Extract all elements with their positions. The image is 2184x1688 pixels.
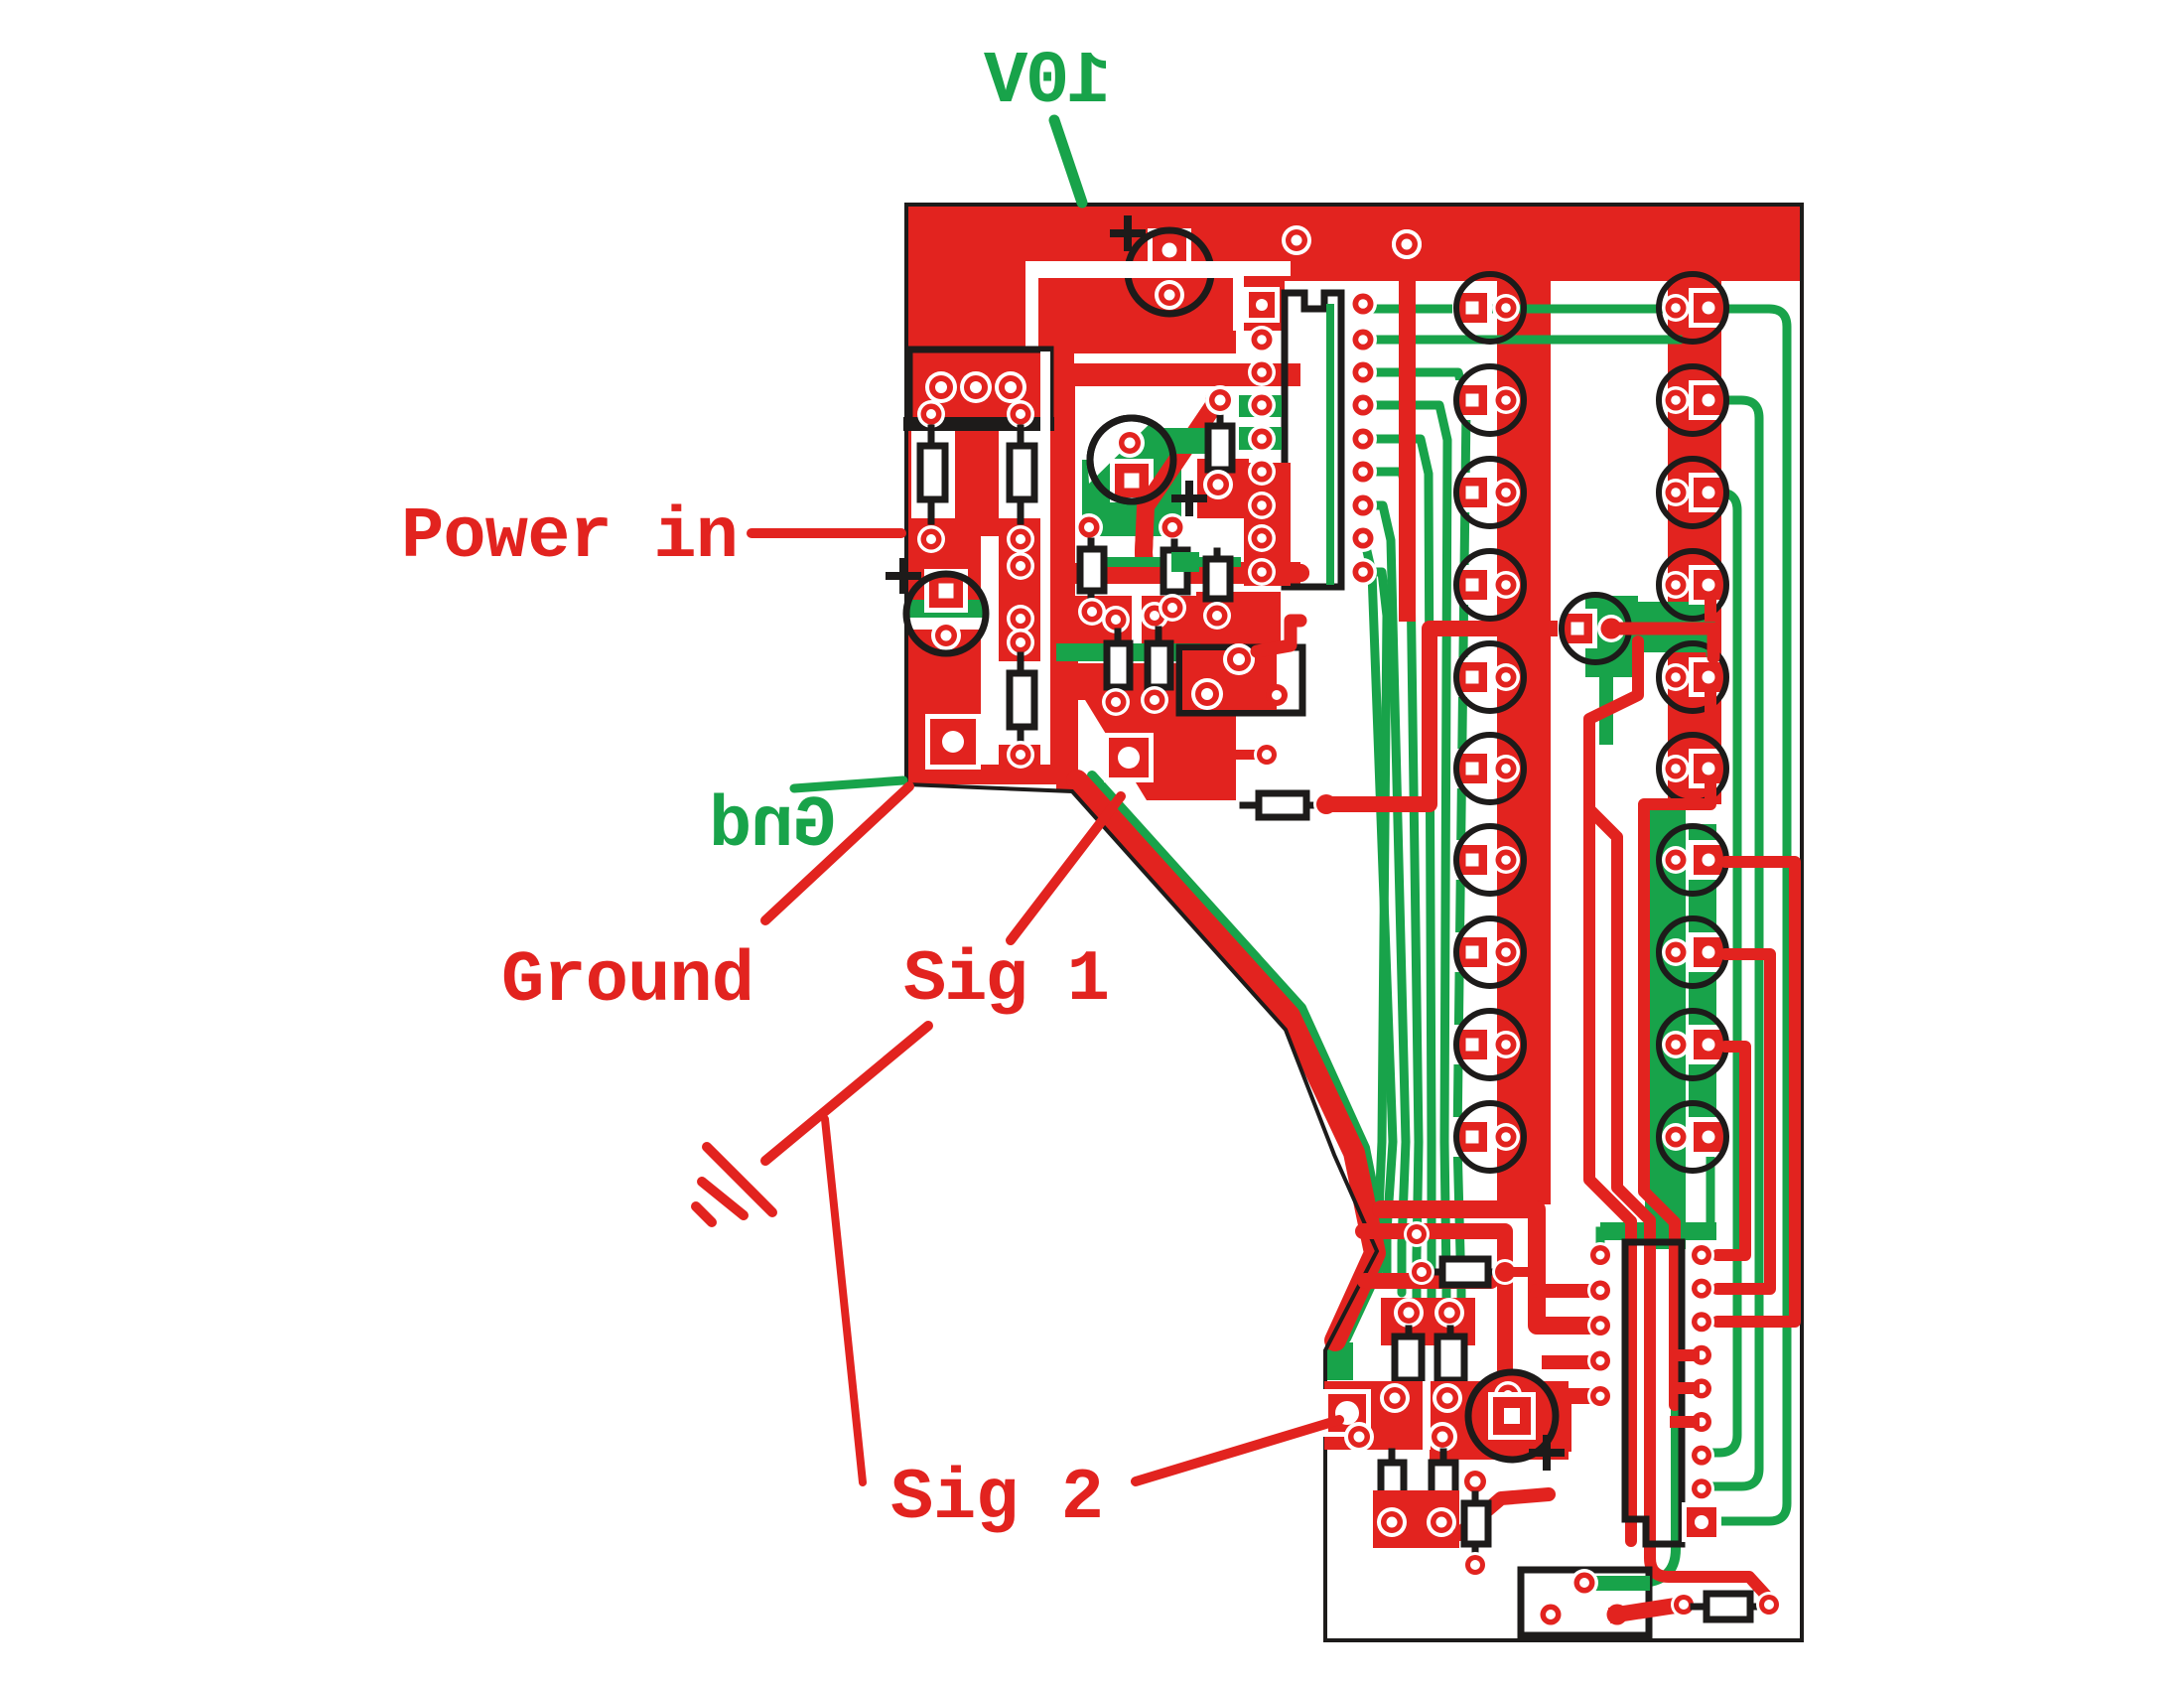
transistor QB4 — [1659, 551, 1728, 619]
capacitor C3 plus mark — [889, 562, 917, 590]
board outline — [906, 205, 1802, 1640]
green wedge at diagonal end — [1325, 1342, 1353, 1380]
slash mark 2 — [702, 1182, 744, 1215]
pads below R5 R6 — [1102, 686, 1168, 716]
green fan bundle (7 traces IC to bottom islands) — [1364, 372, 1466, 1340]
IC left pad sq — [1244, 287, 1280, 323]
resistor R1 pad top — [917, 400, 945, 428]
capacitor C4 plus — [1533, 1439, 1561, 1467]
resistor R15 body — [1080, 541, 1104, 608]
transistor QB2 — [1659, 366, 1728, 434]
capacitor C3 outline — [906, 574, 986, 653]
transistor QA10 — [1452, 1103, 1524, 1171]
slash mark 1 — [707, 1147, 772, 1212]
capacitor C4 square pad — [1488, 1392, 1536, 1440]
sig1 square pad — [1104, 733, 1154, 782]
resistor R16 body — [1163, 542, 1187, 606]
connector J3 right pads — [1682, 1242, 1721, 1542]
transistor QB10 — [1659, 1103, 1728, 1171]
IC right pads column — [1349, 290, 1377, 586]
connector J3 left pads — [1587, 1242, 1613, 1409]
island 1 pads — [1394, 1298, 1464, 1328]
column A red bar — [1497, 281, 1551, 1204]
connector J1 bottom bar — [903, 417, 1054, 431]
red trace maze b — [1589, 809, 1769, 1599]
capacitor C1 ring pad — [1155, 280, 1184, 310]
teardrop pad top of vert trace — [1392, 229, 1422, 259]
column B red bar — [1668, 281, 1721, 804]
red mass sig1 island — [1056, 616, 1236, 800]
pad right isolated — [1460, 1467, 1490, 1496]
red trace staple to Q7 — [1326, 629, 1567, 804]
white corridor under band — [1025, 261, 1291, 352]
pads mid column x1028 — [1007, 552, 1034, 656]
capacitor C2 green fill — [1082, 404, 1181, 536]
transistor QA3 — [1452, 459, 1524, 526]
resistor R8 horizontal — [1422, 1259, 1504, 1285]
red bar maze 2 — [1365, 1221, 1491, 1281]
resistor R2 body — [1010, 428, 1034, 521]
red trace B6 elbow — [1717, 862, 1795, 1322]
red trace maze c — [1644, 789, 1710, 1405]
svg-text:Sig 1: Sig 1 — [903, 939, 1110, 1021]
island 3 pads — [1377, 1507, 1456, 1537]
leader Ground — [765, 786, 909, 920]
connector J2 pad small — [1266, 684, 1288, 706]
green trace to J4 pad — [1588, 1249, 1676, 1583]
column B green band lower — [1645, 800, 1686, 1249]
transistor QB9 — [1659, 1011, 1728, 1078]
transistor QB7 — [1659, 826, 1728, 894]
resistor R1 white field — [911, 431, 955, 518]
label Sig 2 — [890, 1458, 1104, 1539]
green trace top h1 — [1368, 309, 1787, 1521]
green stub B9 down — [1706, 1154, 1715, 1231]
green trace top h2 — [1368, 336, 1678, 345]
red trace C2 to bar — [1144, 402, 1300, 573]
red trace vert left of C2 — [1056, 363, 1075, 675]
leader Sig1 down — [765, 1026, 928, 1161]
red link R8 to maze — [1505, 1267, 1537, 1277]
connector J1 pad 3 — [995, 371, 1026, 403]
leader Gnd — [794, 780, 903, 788]
transistor Q7 mid — [1558, 595, 1629, 662]
slash mark 3 — [696, 1206, 712, 1222]
resistor R1 body — [920, 428, 945, 521]
resistor R10 body — [1437, 1329, 1464, 1390]
svg-text:Sig 2: Sig 2 — [890, 1458, 1104, 1539]
red trace maze a — [1589, 641, 1638, 1541]
red trace bar horiz center — [1056, 363, 1300, 386]
red bar maze 1b — [1363, 1231, 1588, 1396]
label Ground — [501, 940, 754, 1022]
IC green line — [1326, 308, 1334, 581]
red vert trace from band to Q7 — [1392, 229, 1422, 622]
red bar behind resistor row — [1070, 563, 1249, 584]
resistor R4 pad top — [1205, 385, 1235, 415]
capacitor C3 green strip — [908, 600, 986, 618]
green companion trace of board-edge diagonal — [1092, 775, 1386, 1338]
square pad power — [925, 714, 981, 770]
connector J2 pad big — [1223, 643, 1255, 675]
pads row 2 bottom — [1344, 1422, 1457, 1452]
capacitor C1 plus mark — [1114, 219, 1142, 247]
transistor QB5 — [1659, 643, 1728, 711]
transistor QA7 — [1452, 826, 1524, 894]
pillar left of IC — [1238, 205, 1285, 331]
red band lower center — [1064, 663, 1281, 700]
connector J2 pad 2 — [1191, 678, 1223, 710]
transistor QA6 — [1452, 735, 1524, 802]
resistor R7 horizontal — [1243, 793, 1320, 817]
capacitor C4 ring pad — [1494, 1381, 1522, 1409]
green trace B2 elbow — [1707, 400, 1759, 1486]
leader long to Sig2 — [825, 1119, 863, 1482]
capacitor C3 square pad — [924, 569, 968, 613]
leader Power in — [751, 528, 901, 538]
connector J1 pad 1 — [925, 371, 957, 403]
white field around IC — [1285, 281, 1380, 293]
capacitor C2 plus — [1175, 485, 1203, 512]
resistor R2 pad top — [1007, 400, 1034, 428]
red trace C2 to bar overlay — [1144, 389, 1300, 573]
connector J3 outline — [1625, 1242, 1682, 1544]
board outline top fill: top copper band (10V plane) — [906, 205, 1800, 281]
capacitor C2 ring pad — [1115, 428, 1145, 458]
transistor QA4 — [1452, 551, 1524, 619]
red thick diagonal trace (board edge) — [1077, 780, 1375, 1340]
pads above resistor row — [1075, 513, 1186, 541]
red link J4 to pad — [1617, 1592, 1697, 1618]
capacitor C4 outline — [1468, 1372, 1556, 1460]
capacitor C3 white strip — [908, 618, 986, 630]
svg-text:Power in: Power in — [401, 496, 739, 578]
leader 10V — [1054, 120, 1082, 203]
label Sig 1 — [903, 939, 1110, 1021]
green stub B4 — [1706, 600, 1715, 652]
IC left pads column — [1248, 326, 1276, 586]
resistor R3 body — [1010, 655, 1034, 747]
left copper block — [906, 205, 1052, 784]
green bottom connector stub — [1592, 1576, 1650, 1591]
transistor QB8 — [1659, 918, 1728, 986]
resistor R11 body — [1381, 1452, 1404, 1511]
pad below R13 — [1462, 1552, 1488, 1578]
column B green narrow lower — [1689, 824, 1716, 1152]
resistor R2 white field — [999, 431, 1042, 518]
connector J1 pad 2 — [960, 371, 992, 403]
connector J1 outline — [909, 350, 1050, 425]
transistor QA9 — [1452, 1011, 1524, 1078]
pads col right of IC green rects — [1239, 395, 1291, 586]
resistor R3 pad bottom — [1007, 741, 1034, 769]
green band Q7 area — [1585, 596, 1713, 745]
resistor R6 body — [1148, 630, 1170, 695]
green trace B3 elbow — [1707, 492, 1737, 1453]
resistor R5 body — [1107, 632, 1130, 695]
island 3 fill — [1373, 1490, 1459, 1548]
red trace B7 elbow — [1717, 954, 1770, 1289]
resistor R3 white field — [999, 661, 1042, 745]
green strip under bar — [1056, 552, 1200, 661]
red trace Q7 to colB — [1612, 629, 1713, 657]
transistor QA1 — [1452, 274, 1524, 342]
resistor R2 pad bottom — [1007, 525, 1034, 553]
transistor QA8 — [1452, 918, 1524, 986]
svg-text:Ground: Ground — [501, 940, 754, 1022]
red stub B5 down — [1705, 783, 1716, 794]
capacitor C1 outline — [1128, 230, 1211, 314]
resistor R12 body — [1432, 1452, 1455, 1511]
resistor R4 pad bottom — [1203, 470, 1233, 499]
green bar above tall connector — [1600, 1222, 1716, 1253]
red bar maze 1 — [1381, 1209, 1588, 1326]
transistor QB3 — [1659, 459, 1728, 526]
red stub B4 down — [1705, 600, 1716, 707]
IC U1 outline — [1285, 293, 1341, 587]
white channel left block — [981, 352, 1050, 765]
island 2 fill — [1324, 1381, 1569, 1460]
red elbow right bottom — [0, 0, 1, 1]
transistor QB6 — [1659, 735, 1728, 802]
transistor QA5 — [1452, 643, 1524, 711]
capacitor C2 outline — [1090, 418, 1173, 501]
pad right of R7 — [1313, 791, 1339, 817]
transistor QA2 — [1452, 366, 1524, 434]
center-left red under-corridor block — [1038, 278, 1074, 784]
svg-text:10V: 10V — [983, 41, 1111, 124]
island 1 fill — [1381, 1298, 1475, 1345]
island 2 square pad — [1323, 1389, 1371, 1437]
red stubs J3 right pads — [1676, 1355, 1694, 1422]
resistor R8 pads — [1409, 1259, 1518, 1285]
label Gnd (mirrored) — [709, 785, 836, 867]
via pad on band — [1282, 225, 1311, 255]
leader Sig1 to pad — [1011, 796, 1121, 940]
red trace B8 elbow — [1717, 1047, 1745, 1255]
pad right of R14 — [1756, 1592, 1782, 1618]
red bar y577 to pads col — [1231, 562, 1300, 584]
connector J4 pads — [1537, 1569, 1631, 1628]
pads row mid — [1078, 594, 1231, 633]
capacitor C2 square pad — [1110, 459, 1154, 502]
island 2 pads — [1380, 1383, 1462, 1413]
connector J2 area — [1179, 647, 1302, 713]
resistor R4 body — [1208, 402, 1232, 479]
label Power in — [401, 496, 739, 578]
svg-text:Gnd: Gnd — [709, 785, 836, 867]
red island under R near C2 — [1197, 459, 1249, 518]
capacitor C3 ring pad — [931, 621, 961, 650]
resistor R9 body — [1395, 1329, 1422, 1390]
resistor R17 body — [1206, 551, 1230, 614]
red trace IC bottom elbow — [1257, 621, 1300, 651]
green strip above bar — [1082, 557, 1241, 567]
red trace island3 right — [1459, 1494, 1549, 1534]
label 10V (mirrored) — [983, 41, 1111, 124]
transistor QB1 — [1659, 274, 1728, 342]
green bar right of C2 — [1090, 418, 1228, 501]
resistor R1 pad bottom — [917, 525, 945, 553]
capacitor C4 red fill — [1471, 1375, 1571, 1457]
cap pillar red under band — [1025, 205, 1238, 353]
connector J4 outline — [1521, 1570, 1649, 1635]
capacitor C1 square pad — [1148, 228, 1191, 272]
red trace sig island to pad — [1207, 742, 1280, 768]
resistor R13 body — [1464, 1494, 1488, 1551]
red stub pads left col — [1549, 1355, 1588, 1369]
leader Sig2 — [1136, 1420, 1339, 1481]
red island pads row mid — [1067, 592, 1281, 686]
resistor R14 horizontal — [1694, 1594, 1763, 1619]
